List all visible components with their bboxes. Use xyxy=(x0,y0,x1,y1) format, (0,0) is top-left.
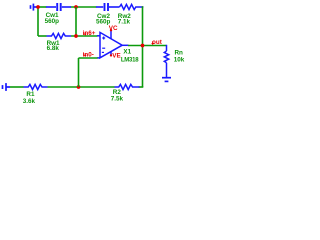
resistor R2 xyxy=(115,84,140,89)
svg-text:LM318: LM318 xyxy=(121,58,139,64)
svg-text:7.5k: 7.5k xyxy=(111,96,124,103)
port P2 (bottom-left input terminal) xyxy=(3,83,11,91)
wire corner bottom-right xyxy=(139,86,144,88)
ground xyxy=(162,78,171,82)
svg-text:R1: R1 xyxy=(26,91,35,98)
svg-text:10k: 10k xyxy=(174,56,185,63)
net label tick in0- xyxy=(84,53,87,57)
wire Rw1 to op-amp + input xyxy=(71,35,98,37)
wire R1 to R2 xyxy=(48,86,115,88)
wire vertical to inverting input xyxy=(78,58,80,87)
pin mark xyxy=(102,51,104,53)
svg-text:Rn: Rn xyxy=(175,49,184,56)
junction node between Cw1 and Cw2 xyxy=(74,5,78,9)
wire Rw1 row left xyxy=(38,35,47,37)
junction output/feedback xyxy=(141,44,145,48)
port P1 (top-left input terminal) xyxy=(31,4,39,11)
svg-text:3.6k: 3.6k xyxy=(23,98,36,104)
wire horizontal to inverting input xyxy=(79,57,98,59)
svg-text:560p: 560p xyxy=(45,18,60,25)
junction Rw1 / vertical xyxy=(74,34,78,38)
resistor Rw2 xyxy=(120,4,144,9)
wire top row left xyxy=(38,6,97,8)
net label tick in6+ xyxy=(84,32,87,36)
pin VC dot xyxy=(110,29,112,31)
junction bottom node xyxy=(77,85,81,89)
svg-text:out: out xyxy=(152,39,163,46)
svg-text:VE: VE xyxy=(112,53,120,60)
resistor R1 xyxy=(24,84,48,89)
resistor Rw1 xyxy=(47,33,72,38)
svg-text:7.1k: 7.1k xyxy=(118,18,131,25)
svg-text:6.8k: 6.8k xyxy=(47,45,60,52)
wire left vertical from input junction xyxy=(37,7,39,36)
junction at port P1 xyxy=(36,5,40,9)
resistor Rn xyxy=(164,45,168,77)
- marker xyxy=(102,47,105,49)
wire vertical x76 to Rw1 output xyxy=(75,7,77,36)
pin VE dot xyxy=(110,54,112,56)
capacitor Cw2 xyxy=(96,3,120,11)
capacitor Cw1 xyxy=(46,3,71,11)
wire feedback vertical right (x=142.5, top row to bottom row) xyxy=(142,6,144,87)
wire op-amp output to Rn xyxy=(128,45,167,47)
wire bottom row left xyxy=(10,86,24,88)
svg-text:X1: X1 xyxy=(123,49,131,56)
op-amp X1 xyxy=(97,30,129,58)
+ marker xyxy=(102,37,105,39)
net label tick out xyxy=(151,41,154,45)
